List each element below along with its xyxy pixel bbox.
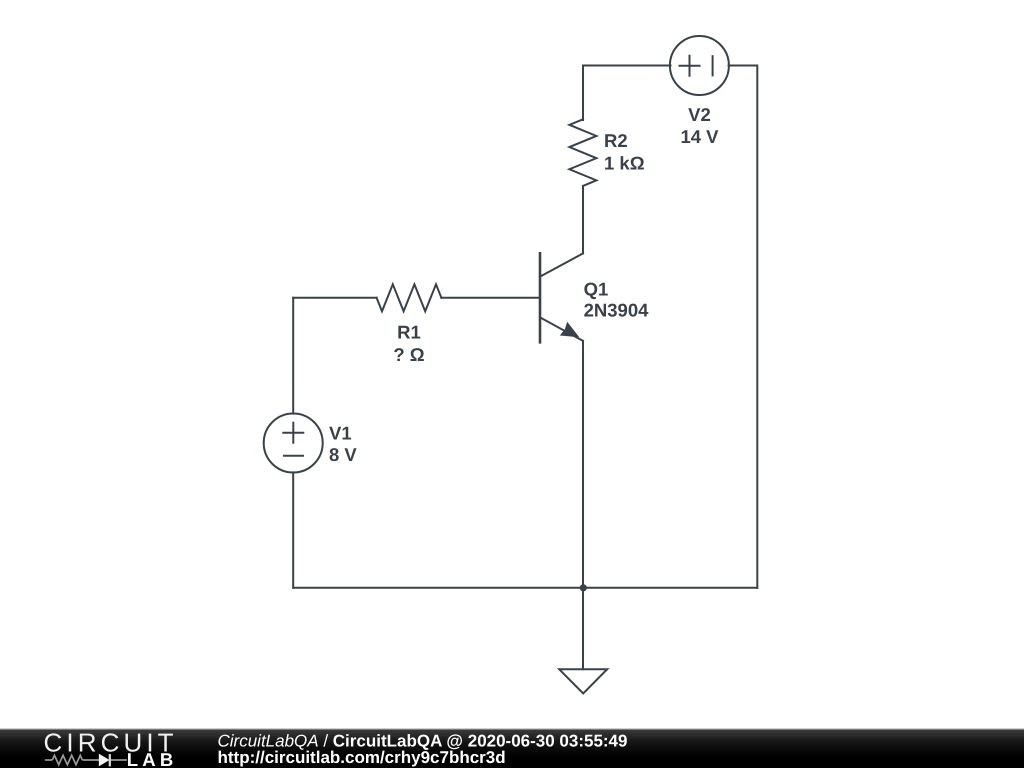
wire base right: R1 to Q1 base bbox=[441, 297, 540, 299]
svg-text:8 V: 8 V bbox=[329, 444, 357, 465]
wire left lower: V1 bottom to bottom wire bbox=[292, 472, 294, 587]
svg-text:R1: R1 bbox=[397, 322, 421, 343]
wire left upper: base node down to V1 top bbox=[292, 298, 294, 414]
logo wire right bbox=[110, 759, 127, 761]
svg-text:R2: R2 bbox=[604, 130, 628, 151]
logo wire left bbox=[45, 759, 53, 761]
transistor Q1: emitter diagonal bbox=[540, 317, 583, 341]
voltage source V2 plus sign bbox=[680, 56, 700, 76]
wire collector: R2 bottom to Q1 collector bbox=[582, 186, 584, 254]
svg-text:V1: V1 bbox=[329, 423, 352, 444]
footer bar top highlight line bbox=[0, 729, 1024, 730]
resistor R1 (horizontal, ? Ohm) bbox=[377, 284, 442, 311]
voltage source V2 (14 V) circle bbox=[670, 36, 729, 95]
svg-text:14 V: 14 V bbox=[680, 126, 719, 147]
wire base left: node to R1 bbox=[293, 297, 376, 299]
logo wire middle bbox=[82, 759, 99, 761]
ground symbol triangle bbox=[559, 669, 607, 693]
transistor Q1 2N3904: base bar bbox=[539, 253, 542, 342]
svg-text:V2: V2 bbox=[688, 104, 711, 125]
voltage source V2 minus sign (rotated) bbox=[712, 56, 714, 75]
resistor R2 (vertical, 1 kOhm) bbox=[569, 119, 596, 186]
svg-text:LAB: LAB bbox=[127, 749, 178, 768]
transistor Q1: collector diagonal bbox=[540, 253, 583, 276]
wire emitter: Q1 emitter down to bottom node bbox=[582, 341, 584, 588]
logo resistor zigzag bbox=[52, 755, 82, 764]
svg-text:1 kΩ: 1 kΩ bbox=[604, 152, 645, 173]
wire top-left: from R2 top to V2 left lead bbox=[583, 66, 671, 121]
logo diode triangle bbox=[99, 754, 110, 767]
svg-text:? Ω: ? Ω bbox=[393, 344, 424, 365]
voltage source V1 minus sign bbox=[284, 455, 303, 457]
voltage source V1 plus sign bbox=[283, 423, 303, 443]
voltage source V1 (8 V) circle bbox=[264, 414, 323, 473]
logo diode cathode bar bbox=[109, 754, 111, 766]
transistor Q1: emitter arrow head bbox=[560, 322, 580, 338]
wire top-right: V2 right lead down right side bbox=[729, 66, 758, 588]
svg-text:Q1: Q1 bbox=[584, 278, 609, 299]
junction node dot bbox=[580, 584, 587, 591]
svg-text:http://circuitlab.com/crhy9c7b: http://circuitlab.com/crhy9c7bhcr3d bbox=[218, 748, 506, 767]
wire bottom bbox=[293, 587, 757, 589]
wire ground stem bbox=[582, 588, 584, 669]
svg-text:2N3904: 2N3904 bbox=[584, 300, 650, 321]
footer bar bbox=[0, 729, 1024, 768]
